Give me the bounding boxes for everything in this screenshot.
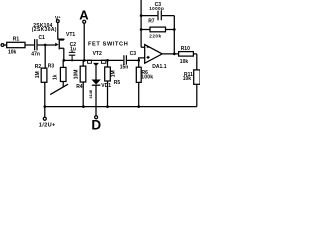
terminal A xyxy=(83,20,86,23)
node rail VT1 source xyxy=(62,59,65,62)
wire A to rail xyxy=(83,23,85,60)
svg-text:1M: 1M xyxy=(111,70,117,77)
svg-text:10k: 10k xyxy=(183,76,192,82)
wire R5 top xyxy=(107,60,109,67)
wire V+ to VT1 drain xyxy=(58,23,64,41)
wire R7 right xyxy=(166,29,175,31)
node fb right xyxy=(173,28,176,31)
svg-text:1000p: 1000p xyxy=(149,6,164,11)
trimmer arrow R3 xyxy=(50,84,68,94)
op-amp DA1.1 xyxy=(145,45,163,64)
svg-text:R3: R3 xyxy=(48,63,55,69)
wire R10 to R11 xyxy=(193,54,196,70)
resistor R10 xyxy=(179,52,194,57)
svg-text:DA1.1: DA1.1 xyxy=(152,64,166,70)
svg-text:47n: 47n xyxy=(31,51,40,57)
plus sign xyxy=(147,56,150,59)
node bus R2 xyxy=(43,105,46,108)
svg-text:10k: 10k xyxy=(8,50,17,56)
wire R3 top xyxy=(62,60,64,67)
transistor VT1 gate arrow xyxy=(55,43,58,47)
svg-text:R2: R2 xyxy=(35,64,42,70)
node rail R6 xyxy=(137,59,140,62)
svg-text:15n: 15n xyxy=(120,65,129,71)
wire R4 to bus xyxy=(82,82,84,107)
wire R7 left xyxy=(141,29,150,31)
terminal 1/2U+ xyxy=(43,117,46,120)
resistor R2 xyxy=(41,68,47,82)
svg-text:R10: R10 xyxy=(181,46,190,52)
capacitor C1 xyxy=(35,39,37,50)
node output fb xyxy=(173,53,176,56)
node bus R6 xyxy=(137,105,140,108)
wire op-amp output xyxy=(162,53,178,55)
capacitor C5 xyxy=(158,11,161,21)
wire inverting input xyxy=(141,0,145,47)
wire VD1 to terminal D xyxy=(95,85,97,115)
svg-text:VD1: VD1 xyxy=(101,83,111,89)
wire bottom bus xyxy=(45,106,197,108)
wire input to R1 xyxy=(4,44,7,46)
transistor VT1 channel xyxy=(59,39,60,49)
svg-text:10k: 10k xyxy=(180,59,189,65)
node rail R5 xyxy=(106,59,109,62)
svg-text:VT2: VT2 xyxy=(93,51,102,57)
terminal D xyxy=(95,116,98,119)
resistor R4 xyxy=(80,66,86,82)
wire N1 down to R2 xyxy=(44,45,45,68)
resistor R5 xyxy=(105,67,111,81)
capacitor C2 xyxy=(69,51,76,61)
svg-text:A: A xyxy=(79,8,89,23)
resistor R1 xyxy=(7,42,25,47)
svg-text:1M: 1M xyxy=(35,71,41,78)
transistor VT2 contacts xyxy=(88,60,92,63)
wire rail xyxy=(64,59,139,61)
svg-text:C3: C3 xyxy=(130,51,137,57)
wire C1 to VT1 gate xyxy=(38,44,56,46)
svg-text:1/2U+: 1/2U+ xyxy=(39,122,56,128)
node N1 xyxy=(44,44,47,47)
resistor R11 xyxy=(194,70,200,84)
minus sign xyxy=(147,46,149,48)
node bus R5 xyxy=(106,105,109,108)
svg-text:10M: 10M xyxy=(74,70,80,80)
svg-text:1k: 1k xyxy=(53,74,59,80)
wire noninverting input xyxy=(139,58,145,61)
svg-text:R4: R4 xyxy=(76,84,83,90)
wire feedback top xyxy=(141,15,157,17)
power terminal V+ xyxy=(56,20,59,23)
svg-text:FET SWITCH: FET SWITCH xyxy=(88,42,128,48)
svg-text:R7: R7 xyxy=(148,18,155,24)
node rail A xyxy=(83,59,86,62)
node fb cap xyxy=(140,14,143,17)
wire to R4 xyxy=(82,60,84,66)
node fb left xyxy=(140,28,143,31)
capacitor C3 xyxy=(124,55,127,64)
svg-text:R5: R5 xyxy=(114,80,121,86)
resistor R6 xyxy=(136,67,141,82)
svg-text:C1: C1 xyxy=(39,35,46,41)
wire R6 top xyxy=(138,60,140,67)
diode VD1 xyxy=(92,80,101,85)
svg-text:100k: 100k xyxy=(141,75,153,81)
input terminal xyxy=(1,44,4,47)
wire R1 to C1 xyxy=(25,44,34,46)
svg-text:1u: 1u xyxy=(70,46,76,52)
svg-text:VT1: VT1 xyxy=(66,32,75,38)
wire R5 to bus xyxy=(107,81,109,107)
wire bus to half supply terminal xyxy=(44,107,46,118)
svg-text:D: D xyxy=(91,118,101,132)
resistor R7 xyxy=(150,27,166,32)
transistor VT2 gate arrow xyxy=(93,63,99,66)
svg-text:220k: 220k xyxy=(149,33,161,38)
svg-text:4148: 4148 xyxy=(88,89,93,98)
resistor R3 (trimmer) xyxy=(60,67,66,81)
wire R2 to bus xyxy=(44,82,46,106)
wire R11 to bus xyxy=(196,84,198,106)
VT1 drain and source leads xyxy=(60,40,64,60)
node bus R4 xyxy=(82,105,85,108)
svg-text:R1: R1 xyxy=(13,36,20,42)
svg-text:(2SK30A): (2SK30A) xyxy=(32,27,57,33)
wire R6 to bus xyxy=(138,82,140,106)
wire VT2 gate to VD1 xyxy=(95,66,97,80)
